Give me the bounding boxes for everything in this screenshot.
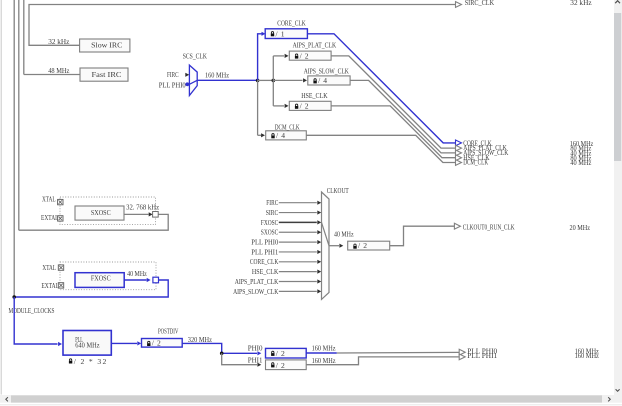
- svg-text:PLL PHI1: PLL PHI1: [467, 351, 497, 360]
- svg-text:SIRC_CLK: SIRC_CLK: [465, 0, 495, 7]
- svg-text:Slow IRC: Slow IRC: [91, 41, 122, 50]
- svg-text:AIPS_SLOW_CLK: AIPS_SLOW_CLK: [233, 287, 279, 296]
- svg-text:AIPS_SLOW_CLK: AIPS_SLOW_CLK: [304, 67, 350, 76]
- svg-text:/ 2: / 2: [300, 51, 309, 60]
- svg-text:160 MHz: 160 MHz: [205, 70, 230, 79]
- svg-text:FXOSC: FXOSC: [91, 273, 111, 282]
- svg-text:/ 2: / 2: [358, 241, 367, 250]
- svg-text:PLL PHI0: PLL PHI0: [251, 238, 278, 247]
- svg-text:AIPS_PLAT_CLK: AIPS_PLAT_CLK: [293, 41, 337, 50]
- svg-text:/ 4: / 4: [276, 131, 285, 140]
- svg-text:POSTDIV: POSTDIV: [158, 327, 179, 336]
- svg-text:48 MHz: 48 MHz: [48, 66, 70, 75]
- svg-text:HSE_CLK: HSE_CLK: [252, 267, 279, 276]
- svg-text:CORE_CLK: CORE_CLK: [277, 19, 306, 28]
- svg-text:/ 2 * 32: / 2 * 32: [74, 357, 107, 366]
- svg-text:40 MHz: 40 MHz: [127, 269, 147, 278]
- svg-text:FIRC: FIRC: [266, 198, 278, 207]
- svg-text:640 MHz: 640 MHz: [75, 340, 100, 349]
- svg-text:/ 2: / 2: [152, 338, 161, 347]
- svg-text:160 MHz: 160 MHz: [575, 351, 600, 360]
- svg-text:Fast IRC: Fast IRC: [92, 70, 122, 79]
- svg-text:32 kHz: 32 kHz: [570, 0, 592, 7]
- svg-text:/ 1: / 1: [276, 30, 285, 39]
- svg-text:32. 768 kHz: 32. 768 kHz: [126, 203, 160, 212]
- svg-text:EXTAL: EXTAL: [41, 281, 59, 290]
- svg-text:AIPS_PLAT_CLK: AIPS_PLAT_CLK: [235, 277, 279, 286]
- svg-text:32 kHz: 32 kHz: [48, 37, 70, 46]
- svg-text:320 MHz: 320 MHz: [188, 335, 213, 344]
- svg-text:PHI1: PHI1: [248, 356, 263, 365]
- svg-text:HSE_CLK: HSE_CLK: [301, 91, 328, 100]
- svg-text:DCM_CLK: DCM_CLK: [463, 158, 488, 167]
- svg-text:/ 2: / 2: [300, 102, 309, 111]
- svg-text:SCS_CLK: SCS_CLK: [183, 52, 207, 61]
- svg-text:SXOSC: SXOSC: [261, 228, 279, 237]
- svg-text:XTAL: XTAL: [42, 263, 56, 272]
- svg-text:EXTAL: EXTAL: [41, 213, 59, 222]
- svg-text:CLKOUT0_RUN_CLK: CLKOUT0_RUN_CLK: [463, 222, 515, 231]
- svg-text:160 MHz: 160 MHz: [312, 356, 337, 365]
- svg-text:MODULE_CLOCKS: MODULE_CLOCKS: [9, 306, 55, 315]
- svg-text:FXOSC: FXOSC: [261, 218, 279, 227]
- svg-text:40 MHz: 40 MHz: [570, 158, 591, 167]
- svg-text:PLL PHI1: PLL PHI1: [251, 247, 278, 256]
- svg-text:40 MHz: 40 MHz: [334, 229, 354, 238]
- svg-text:/ 2: / 2: [276, 349, 285, 358]
- svg-text:CORE_CLK: CORE_CLK: [250, 257, 279, 266]
- svg-text:XTAL: XTAL: [42, 195, 56, 204]
- svg-text:CLKOUT: CLKOUT: [327, 186, 349, 195]
- svg-text:SIRC: SIRC: [266, 208, 279, 217]
- svg-text:/ 4: / 4: [318, 76, 327, 85]
- svg-text:160 MHz: 160 MHz: [312, 343, 337, 352]
- svg-text:FIRC: FIRC: [167, 70, 179, 79]
- svg-text:SXOSC: SXOSC: [91, 208, 111, 217]
- svg-text:/ 2: / 2: [276, 361, 285, 370]
- svg-text:20 MHz: 20 MHz: [570, 223, 591, 232]
- svg-text:PLL PHI0: PLL PHI0: [159, 81, 186, 90]
- svg-text:PHI0: PHI0: [248, 343, 263, 352]
